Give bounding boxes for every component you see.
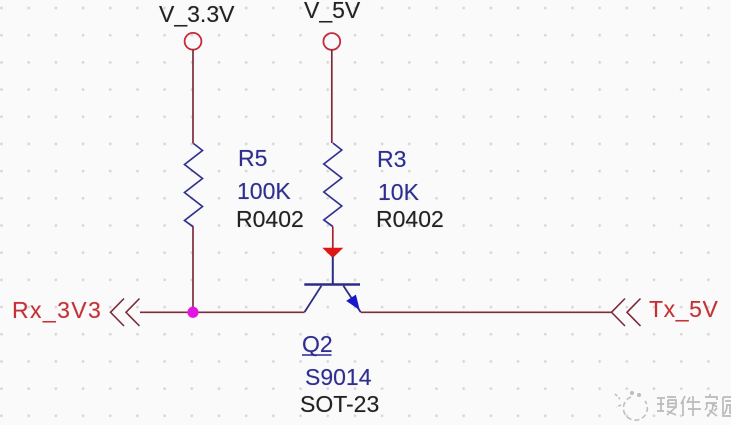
net label V_5V bbox=[304, 0, 360, 22]
junction dot bbox=[187, 307, 198, 318]
resistor R3 designator bbox=[377, 148, 406, 171]
resistor R5 designator bbox=[238, 147, 267, 170]
power port V_5V circle bbox=[323, 33, 340, 50]
resistor R5 footprint R0402 bbox=[236, 208, 304, 231]
transistor Q2 emitter lead bbox=[343, 286, 360, 312]
园 bbox=[723, 397, 731, 416]
wire from V_3.3V to R5 bbox=[192, 50, 194, 144]
resistor R5 value 100K bbox=[237, 180, 291, 203]
right port chevron 1 bbox=[612, 299, 626, 327]
resistor R3 footprint R0402 bbox=[376, 208, 444, 231]
left port chevron 1 bbox=[111, 299, 125, 327]
家 bbox=[705, 394, 717, 416]
wire from R5 to junction bbox=[192, 227, 194, 312]
件 bbox=[681, 396, 701, 416]
transistor Q2 base lead bbox=[332, 257, 334, 284]
transistor Q2 designator bbox=[302, 333, 333, 356]
wire from R3 to base arrow bbox=[332, 227, 334, 250]
left port chevron 2 bbox=[126, 299, 140, 327]
port label Rx_3V3 bbox=[12, 299, 102, 322]
transistor Q2 emitter arrow bbox=[346, 295, 360, 311]
硬 bbox=[657, 397, 676, 415]
net label V_3.3V bbox=[159, 3, 234, 26]
power port V_3.3V circle bbox=[185, 33, 202, 50]
transistor Q2 footprint SOT-23 bbox=[300, 393, 379, 416]
resistor R5 zigzag bbox=[185, 144, 203, 228]
port label Tx_5V bbox=[649, 298, 718, 321]
watermark text 硬件家园 (drawn strokes) bbox=[657, 394, 731, 416]
right port chevron 2 bbox=[627, 299, 641, 327]
red arrow into base of Q2 bbox=[322, 248, 343, 258]
transistor Q2 base bar bbox=[304, 283, 360, 286]
resistor R3 zigzag bbox=[324, 143, 342, 227]
watermark logo bbox=[601, 380, 731, 425]
right horizontal wire (Tx_5V net) bbox=[361, 311, 611, 313]
transistor Q2 part S9014 bbox=[305, 366, 372, 389]
Q2 designator underline bbox=[302, 354, 332, 356]
resistor R3 value 10K bbox=[378, 181, 419, 204]
wire from V_5V to R3 bbox=[331, 50, 333, 143]
transistor Q2 collector lead bbox=[305, 286, 322, 312]
left horizontal wire (Rx_3V3 net) bbox=[140, 311, 305, 313]
